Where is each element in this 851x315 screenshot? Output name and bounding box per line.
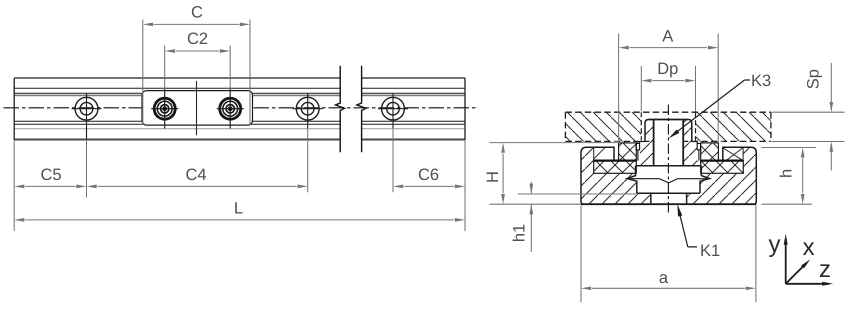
joint line bbox=[196, 81, 198, 135]
rail bottom edge bbox=[14, 139, 465, 141]
svg-text:C6: C6 bbox=[418, 166, 439, 184]
rail body hatch bbox=[581, 120, 756, 205]
svg-text:K1: K1 bbox=[700, 242, 720, 260]
svg-text:h1: h1 bbox=[511, 224, 529, 242]
dimension L bbox=[25, 219, 454, 221]
rail groove line 5 grey bbox=[14, 128, 465, 130]
boss top edge bbox=[649, 119, 689, 121]
bottom slot void bbox=[651, 194, 687, 204]
svg-text:x: x bbox=[803, 234, 815, 261]
counterbore void bbox=[654, 119, 684, 166]
break line left bbox=[336, 66, 345, 152]
rail center line (dash-dot) bbox=[4, 107, 478, 109]
left slot hatch line bbox=[594, 147, 606, 159]
clip slot voids bbox=[636, 143, 640, 161]
pocket shelf with chevron (background edge) bbox=[627, 179, 709, 183]
pocket outline (T-slot) bbox=[627, 166, 709, 194]
svg-text:h: h bbox=[778, 169, 796, 178]
hole H2 bbox=[293, 94, 323, 129]
hole H3 bbox=[378, 94, 408, 129]
finger gap voids bbox=[614, 142, 619, 161]
rail outer outline bbox=[581, 147, 756, 204]
right slot cross lines bbox=[722, 148, 743, 161]
counterbore walls bbox=[654, 120, 684, 166]
svg-text:Dp: Dp bbox=[657, 60, 678, 78]
svg-text:y: y bbox=[769, 231, 781, 258]
rail groove line 1 bbox=[14, 87, 465, 89]
bottom slot walls bbox=[651, 194, 687, 204]
clamp finger left (cross hatched) bbox=[619, 143, 637, 161]
axis arrowheads bbox=[784, 234, 788, 245]
clip right bbox=[697, 143, 700, 149]
extension line hole H2 bbox=[307, 128, 309, 192]
svg-text:C5: C5 bbox=[40, 166, 61, 184]
dimension H bbox=[490, 143, 621, 205]
plate bore edge right bbox=[695, 112, 697, 141]
rail right end edge bbox=[464, 78, 466, 140]
svg-text:C: C bbox=[191, 4, 203, 22]
boss outline bbox=[645, 120, 692, 142]
mounting plate hatch bbox=[565, 112, 641, 141]
svg-text:A: A bbox=[662, 28, 673, 46]
section center line bbox=[667, 105, 669, 216]
leader K1 bbox=[678, 207, 697, 247]
pocket void (T-slot) bbox=[627, 166, 709, 194]
svg-text:Sp: Sp bbox=[805, 69, 823, 89]
dimension Dp bbox=[641, 66, 695, 112]
clamp slot voids bbox=[594, 148, 614, 161]
svg-text:L: L bbox=[234, 200, 243, 218]
extension line hole H3 bbox=[392, 128, 394, 192]
rail bottom edge bbox=[581, 203, 756, 205]
mounting plate outline (hidden/dashed) bbox=[565, 112, 771, 141]
rail groove band grey bbox=[14, 94, 465, 96]
extension line rail right end bbox=[464, 141, 466, 232]
dimension C4 bbox=[98, 185, 297, 187]
leader K3 bbox=[672, 80, 751, 136]
plate bore edge left bbox=[640, 112, 642, 141]
bolt B2 bbox=[217, 89, 244, 129]
svg-text:C2: C2 bbox=[187, 30, 208, 48]
clamp finger right (cross hatched) bbox=[701, 143, 719, 161]
coordinate axes bbox=[786, 239, 828, 284]
clamp block right (cross hatched) bbox=[701, 161, 744, 174]
joint plate bbox=[142, 91, 253, 126]
dimension a bbox=[581, 206, 756, 303]
hole H1 bbox=[72, 94, 102, 140]
break line right bbox=[357, 66, 366, 152]
dimension Sp bbox=[772, 63, 845, 171]
clamp block left (cross hatched) bbox=[594, 161, 637, 174]
dimension C5 bbox=[25, 185, 75, 187]
rail groove line 3 bbox=[14, 120, 465, 122]
svg-text:z: z bbox=[819, 256, 831, 283]
svg-text:H: H bbox=[484, 171, 502, 183]
dimension C2 bbox=[165, 46, 231, 90]
dimension C6 bbox=[404, 185, 454, 187]
rail top edge bbox=[14, 77, 465, 79]
dimension h bbox=[762, 148, 817, 205]
dimension A bbox=[619, 34, 719, 144]
dimension C bbox=[143, 20, 250, 125]
svg-text:K3: K3 bbox=[751, 72, 771, 90]
clamp block top edges (thick) bbox=[594, 160, 744, 162]
svg-text:C4: C4 bbox=[185, 166, 206, 184]
rail groove line 2 bbox=[14, 92, 465, 94]
svg-text:a: a bbox=[659, 269, 669, 287]
dimension h1 bbox=[518, 182, 638, 252]
clip left bbox=[636, 143, 639, 149]
rail top surface at plate bbox=[640, 142, 698, 144]
bolt B1 bbox=[151, 89, 178, 129]
extension line rail left end bbox=[13, 141, 15, 232]
rail left end edge bbox=[13, 78, 15, 140]
rail groove line 4 bbox=[14, 123, 465, 125]
extension line hole H1 bbox=[86, 140, 88, 198]
